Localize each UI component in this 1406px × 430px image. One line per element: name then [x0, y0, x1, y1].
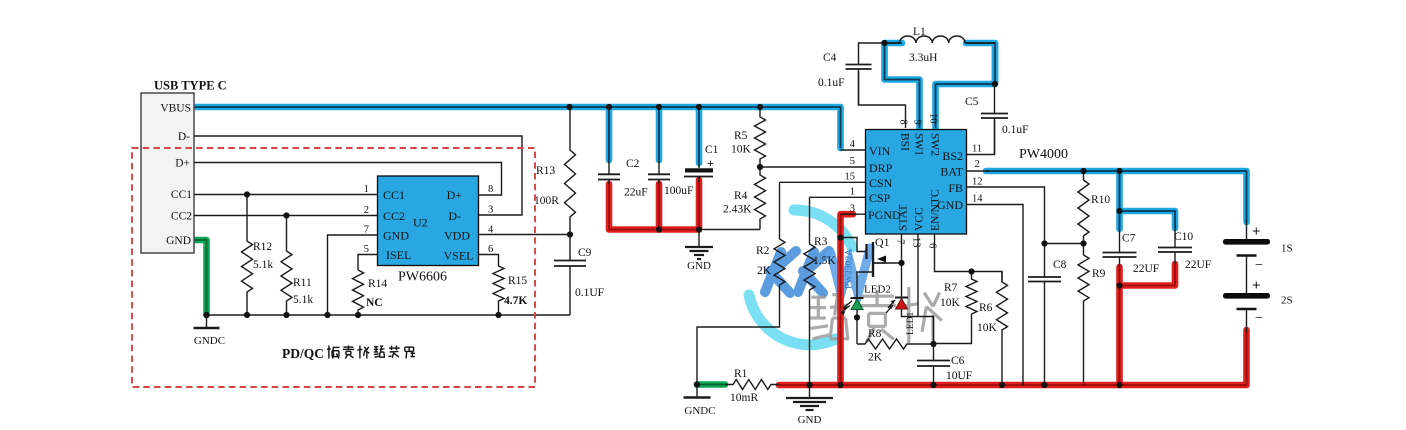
svg-text:Q1: Q1	[875, 235, 890, 249]
svg-text:BS2: BS2	[942, 149, 963, 163]
wire BS2 to C5	[967, 120, 995, 155]
svg-text:PGND: PGND	[868, 208, 901, 222]
svg-text:13: 13	[911, 237, 922, 248]
svg-text:R4: R4	[734, 190, 748, 202]
capacitor C7 22UF	[1119, 229, 1121, 253]
svg-text:3: 3	[850, 204, 855, 215]
wire PGND red	[841, 214, 854, 385]
svg-text:1.5K: 1.5K	[813, 255, 836, 267]
wire left ground bus	[207, 314, 571, 316]
capacitor C10 22UF	[1174, 228, 1176, 248]
wire STAT pin7	[901, 234, 903, 298]
svg-text:R10: R10	[1091, 194, 1110, 206]
svg-text:C6: C6	[951, 355, 965, 367]
svg-text:11: 11	[972, 144, 982, 155]
resistor R14 NC	[353, 270, 364, 315]
svg-text:PD/QC: PD/QC	[282, 346, 324, 361]
svg-text:22UF: 22UF	[1185, 259, 1211, 271]
inductor L1 3.3uH	[900, 36, 966, 43]
svg-text:R8: R8	[868, 328, 882, 340]
wire FB pin12	[967, 187, 1045, 244]
svg-text:5.1k: 5.1k	[253, 259, 273, 271]
svg-text:0.1uF: 0.1uF	[818, 77, 845, 89]
wire R7 bottom	[934, 314, 972, 344]
IC U1 PW4000 body	[866, 130, 967, 235]
svg-text:4: 4	[488, 225, 494, 236]
wire Q1 drain to STAT	[874, 262, 902, 264]
resistor R11 5.1k	[281, 216, 292, 316]
wire CSP sense	[809, 290, 811, 385]
svg-text:GND: GND	[798, 414, 822, 426]
capacitor C1 100uF polarized	[698, 163, 700, 168]
wire BAT stub	[967, 170, 991, 172]
svg-text:R2: R2	[756, 245, 770, 257]
wire U2 ISEL pin5	[358, 255, 378, 271]
wire C2 blue stub	[606, 110, 613, 160]
svg-text:DRP: DRP	[869, 161, 893, 175]
svg-text:−: −	[1255, 258, 1263, 273]
svg-text:R5: R5	[734, 130, 748, 142]
wire FB node	[1045, 243, 1084, 245]
svg-text:GND: GND	[166, 235, 191, 247]
svg-text:C4: C4	[823, 52, 837, 64]
junction dots	[566, 104, 572, 110]
svg-text:1S: 1S	[1281, 243, 1293, 255]
svg-text:EN/NTC: EN/NTC	[930, 189, 942, 231]
svg-text:100R: 100R	[534, 195, 559, 207]
svg-text:7: 7	[364, 225, 369, 236]
wire U2 VDD pin4	[479, 234, 571, 236]
svg-text:+: +	[707, 156, 714, 170]
svg-text:R7: R7	[944, 282, 958, 294]
svg-text:5: 5	[850, 156, 855, 167]
dashed box PD/QC section	[132, 148, 535, 387]
resistor R7 10K	[966, 272, 977, 315]
svg-text:+: +	[1252, 224, 1261, 240]
watermark logo KK circle arc (decorative)	[749, 210, 870, 345]
svg-text:2S: 2S	[1281, 295, 1293, 307]
wire C1 blue stub	[696, 110, 703, 163]
svg-text:R9: R9	[1092, 268, 1106, 280]
transistor Q1	[865, 244, 867, 259]
wire VIN stub	[841, 149, 866, 151]
wire D+	[194, 163, 502, 196]
resistor R8 2K	[857, 339, 934, 349]
ground GNDC bottom	[696, 385, 698, 398]
svg-text:C5: C5	[965, 96, 979, 108]
wire L1 left blue stub	[885, 40, 903, 47]
svg-text:6: 6	[927, 243, 938, 248]
ground GND bottom	[809, 385, 811, 398]
wire R4 to GND node	[699, 229, 760, 231]
battery cell 2S	[1223, 293, 1270, 299]
wire D-	[194, 136, 522, 215]
svg-text:R12: R12	[253, 241, 272, 253]
svg-text:2: 2	[364, 205, 369, 216]
resistor R12 5.1k	[242, 195, 253, 316]
svg-text:C9: C9	[578, 247, 592, 259]
svg-text:D+: D+	[447, 188, 463, 202]
svg-text:CC1: CC1	[383, 188, 405, 202]
svg-text:3.3uH: 3.3uH	[909, 52, 937, 64]
wire battery bottom	[1246, 310, 1248, 332]
resistor R1 10mR	[725, 380, 779, 390]
svg-text:STAT: STAT	[898, 204, 910, 231]
svg-text:D-: D-	[448, 209, 461, 223]
wire GND pin14	[967, 205, 1024, 386]
svg-text:CSP: CSP	[869, 191, 891, 205]
svg-text:C2: C2	[626, 158, 640, 170]
wire CSN	[780, 181, 866, 183]
svg-text:10: 10	[928, 113, 939, 124]
LED1 red	[895, 297, 908, 299]
svg-text:LED1: LED1	[906, 312, 916, 335]
svg-text:8: 8	[488, 184, 493, 195]
svg-text:LED2: LED2	[864, 284, 891, 296]
svg-text:U2: U2	[413, 216, 428, 230]
resistor R10	[1078, 171, 1089, 244]
svg-text:3: 3	[488, 205, 493, 216]
svg-text:C8: C8	[1053, 259, 1067, 271]
svg-text:R13: R13	[536, 165, 555, 177]
wire PGND stub	[841, 213, 866, 215]
wire C7 red	[1116, 267, 1123, 385]
svg-text:10mR: 10mR	[730, 392, 758, 404]
svg-text:VSEL: VSEL	[444, 249, 474, 263]
wire U2 VSEL pin6	[479, 255, 499, 264]
resistor R2 2K	[774, 182, 785, 285]
svg-text:CC2: CC2	[383, 209, 405, 223]
svg-text:VDD: VDD	[444, 229, 470, 243]
wire LED2 cathode	[856, 310, 858, 345]
svg-text:SW1: SW1	[913, 133, 925, 156]
wire bottom red ground bus	[779, 330, 1247, 385]
svg-text:R3: R3	[814, 236, 828, 248]
wire VBUS blue bus	[194, 107, 841, 148]
ground GND under C1	[698, 231, 700, 247]
svg-text:9: 9	[912, 120, 923, 125]
svg-text:14: 14	[972, 194, 983, 205]
wire DRP	[760, 166, 866, 168]
wire Q1 gate tap	[841, 238, 867, 252]
svg-text:ISEL: ISEL	[386, 248, 411, 262]
svg-text:10K: 10K	[977, 322, 998, 334]
wire GND green	[194, 240, 207, 315]
wire C4 bottom to BSI	[859, 71, 906, 128]
svg-text:15: 15	[845, 172, 856, 183]
resistor R5 10K	[755, 107, 766, 167]
svg-text:+: +	[1252, 278, 1261, 294]
resistor R3 1.5K	[804, 197, 815, 290]
svg-text:GNDC: GNDC	[684, 405, 715, 417]
svg-text:22uF: 22uF	[624, 187, 648, 199]
capacitor C6 10UF	[933, 344, 935, 361]
resistor R4 2.43K	[755, 167, 766, 230]
svg-text:10K: 10K	[940, 297, 961, 309]
capacitor C8	[1044, 244, 1046, 278]
svg-text:GND: GND	[687, 260, 711, 272]
svg-text:C10: C10	[1174, 231, 1193, 243]
svg-text:2.43K: 2.43K	[723, 204, 752, 216]
svg-text:VBUS: VBUS	[160, 103, 191, 115]
wire CC2	[194, 215, 378, 217]
svg-text:L1: L1	[913, 26, 926, 38]
wire U2 GND pin7	[328, 235, 378, 315]
wire C7 C10 blue branch	[1116, 174, 1123, 229]
svg-text:PW2302A: PW2302A	[845, 249, 855, 289]
svg-text:2: 2	[975, 159, 980, 170]
svg-text:VIN: VIN	[869, 144, 891, 158]
wire Q1 source to LED2	[857, 272, 874, 298]
wire LED1 cathode VCC join	[902, 310, 934, 345]
wire EN/NTC pin6	[935, 234, 1003, 282]
wire R1 green stub	[697, 381, 725, 388]
svg-text:6: 6	[488, 244, 493, 255]
svg-text:BSI: BSI	[899, 133, 911, 151]
ground GNDC left	[206, 315, 208, 328]
LED2 green	[851, 297, 864, 299]
svg-text:C7: C7	[1122, 233, 1136, 245]
svg-text:7: 7	[895, 239, 906, 244]
svg-text:22UF: 22UF	[1133, 263, 1159, 275]
capacitor C2 22uF	[608, 160, 610, 174]
svg-text:0.1uF: 0.1uF	[1002, 124, 1029, 136]
svg-text:R14: R14	[368, 278, 387, 290]
resistor R6 10K	[997, 272, 1008, 386]
svg-text:5.1k: 5.1k	[293, 294, 313, 306]
svg-text:2K: 2K	[868, 352, 883, 364]
svg-text:100uF: 100uF	[664, 185, 693, 197]
wire L1 right blue	[966, 43, 995, 82]
svg-text:5: 5	[364, 244, 369, 255]
svg-text:C1: C1	[705, 144, 719, 156]
svg-text:1: 1	[364, 184, 369, 195]
wire battery mid	[1246, 256, 1248, 294]
svg-text:4: 4	[850, 139, 856, 150]
resistor R15 4.7K	[493, 263, 504, 315]
svg-text:12: 12	[972, 177, 983, 188]
svg-text:SW2: SW2	[929, 133, 941, 156]
svg-text:PW4000: PW4000	[1019, 147, 1068, 162]
svg-text:BAT: BAT	[940, 165, 963, 179]
wire BAT blue bus	[986, 171, 1247, 222]
svg-text:−: −	[1255, 311, 1263, 326]
svg-text:0.1UF: 0.1UF	[575, 287, 604, 299]
svg-text:R15: R15	[508, 275, 527, 287]
resistor R9	[1078, 244, 1089, 386]
connector J1 USB TYPE C box	[141, 93, 194, 253]
svg-text:4.7K: 4.7K	[504, 295, 527, 307]
resistor R13 100R	[565, 107, 576, 235]
svg-text:GND: GND	[383, 229, 409, 243]
capacitor C4 0.1uF	[858, 62, 860, 65]
IC U2 PW6606 body	[378, 176, 479, 266]
wire C10 red	[1120, 264, 1176, 286]
svg-text:PW6606: PW6606	[398, 270, 447, 285]
svg-text:10UF: 10UF	[946, 370, 972, 382]
wire SW1 blue	[885, 43, 920, 128]
svg-text:R1: R1	[734, 368, 748, 380]
svg-text:8: 8	[898, 120, 909, 125]
wire C4 top	[859, 43, 885, 62]
svg-text:10K: 10K	[731, 144, 752, 156]
svg-text:FB: FB	[948, 181, 963, 195]
wire C2b blue stub	[656, 110, 663, 160]
svg-text:NC: NC	[366, 297, 383, 309]
capacitor C2b	[658, 160, 660, 174]
svg-text:D+: D+	[175, 158, 190, 170]
wire VCC pin13	[917, 234, 919, 317]
svg-text:R6: R6	[979, 302, 993, 314]
svg-text:CC1: CC1	[171, 189, 192, 201]
wire cap ground red bus	[609, 180, 699, 230]
svg-text:R11: R11	[293, 277, 312, 289]
svg-text:CC2: CC2	[171, 211, 192, 223]
battery cell 1S	[1223, 239, 1270, 245]
svg-text:VCC: VCC	[914, 207, 926, 231]
wire SW2 blue	[936, 45, 996, 128]
svg-text:2K: 2K	[757, 265, 772, 277]
wire CSP	[810, 196, 866, 198]
wire battery top	[1246, 220, 1248, 239]
svg-text:1: 1	[850, 187, 855, 198]
svg-text:USB TYPE C: USB TYPE C	[154, 79, 227, 93]
watermark gray characters (decorative)	[810, 295, 849, 339]
svg-text:D-: D-	[178, 131, 190, 143]
svg-text:CSN: CSN	[869, 176, 893, 190]
svg-text:GNDC: GNDC	[194, 335, 225, 347]
wire CC1	[194, 194, 378, 196]
capacitor C5 0.1uF	[994, 86, 996, 114]
capacitor C9 0.1UF	[569, 235, 571, 261]
wire CSN sense	[697, 285, 780, 385]
